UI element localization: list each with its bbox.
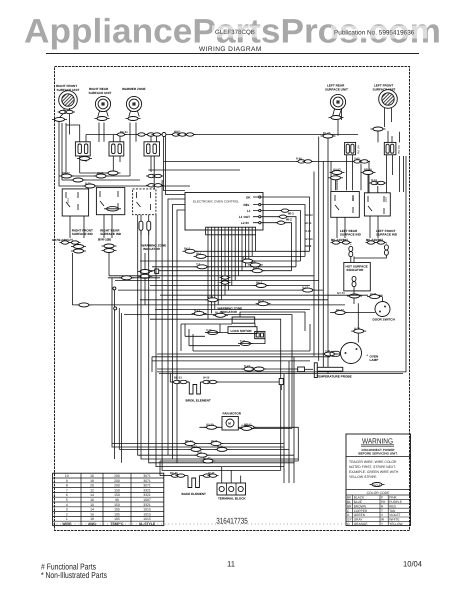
svg-text:316417735: 316417735 — [216, 517, 248, 526]
svg-text:B/W-2(B): B/W-2(B) — [98, 238, 111, 242]
svg-text:BK-12: BK-12 — [305, 214, 313, 217]
svg-text:BK-67: BK-67 — [62, 172, 70, 175]
svg-text:W-14: W-14 — [305, 222, 312, 225]
svg-text:11: 11 — [227, 560, 235, 569]
svg-text:BL-65: BL-65 — [323, 132, 331, 135]
svg-text:14: 14 — [90, 493, 94, 497]
svg-text:T: T — [381, 509, 383, 513]
svg-text:R-55: R-55 — [296, 158, 302, 161]
svg-text:BL-15: BL-15 — [215, 312, 223, 315]
svg-text:WHITE: WHITE — [389, 518, 399, 522]
svg-text:RED: RED — [389, 504, 396, 508]
svg-text:ELECTRONIC OVEN CONTROL: ELECTRONIC OVEN CONTROL — [193, 200, 239, 204]
svg-text:LOCK MOTOR: LOCK MOTOR — [231, 329, 253, 333]
svg-text:GY: GY — [347, 518, 352, 522]
svg-text:C: C — [347, 509, 350, 513]
svg-text:10/04: 10/04 — [403, 560, 423, 569]
svg-text:PR: PR — [381, 500, 386, 504]
svg-text:GY-73: GY-73 — [337, 292, 345, 295]
svg-text:8: 8 — [66, 484, 68, 488]
svg-text:BAKE ELEMENT: BAKE ELEMENT — [182, 492, 207, 496]
svg-text:3321: 3321 — [143, 503, 151, 507]
svg-text:HI-1: HI-1 — [288, 212, 294, 216]
svg-text:G: G — [347, 513, 350, 517]
svg-text:BROIL ELEMENT: BROIL ELEMENT — [186, 399, 211, 403]
svg-text:GREEN: GREEN — [354, 513, 366, 517]
svg-text:P: P — [381, 496, 383, 500]
svg-text:3321: 3321 — [143, 488, 151, 492]
svg-text:R-6: R-6 — [242, 257, 247, 260]
svg-text:6: 6 — [66, 493, 68, 497]
svg-text:2: 2 — [66, 512, 68, 516]
svg-text:105: 105 — [114, 508, 120, 512]
svg-text:COLOR CODE: COLOR CODE — [367, 491, 391, 495]
svg-text:BK-51: BK-51 — [120, 131, 128, 134]
svg-text:GY-16: GY-16 — [305, 238, 313, 241]
svg-text:PURPLE: PURPLE — [389, 500, 402, 504]
svg-text:INF SW: INF SW — [357, 145, 360, 155]
svg-text:PINK: PINK — [389, 496, 397, 500]
svg-text:L1 OUT: L1 OUT — [239, 215, 250, 219]
svg-text:BK-2: BK-2 — [184, 248, 191, 251]
svg-text:3321: 3321 — [143, 493, 151, 497]
svg-text:W: W — [381, 518, 384, 522]
svg-text:16: 16 — [90, 474, 94, 478]
svg-text:90: 90 — [115, 498, 119, 502]
svg-text:1015: 1015 — [143, 512, 151, 516]
svg-text:W-4: W-4 — [196, 253, 201, 256]
svg-text:105: 105 — [114, 517, 120, 521]
svg-text:R-13: R-13 — [194, 310, 200, 313]
svg-text:20: 20 — [90, 484, 94, 488]
svg-text:G/Y-E: G/Y-E — [373, 483, 380, 487]
svg-text:R-10: R-10 — [305, 230, 311, 233]
svg-text:7: 7 — [66, 488, 68, 492]
svg-text:BEFORE SERVICING UNIT.: BEFORE SERVICING UNIT. — [358, 451, 397, 455]
svg-text:R-71: R-71 — [85, 182, 91, 185]
svg-text:R: R — [381, 504, 384, 508]
svg-text:14: 14 — [90, 508, 94, 512]
svg-text:18: 18 — [90, 479, 94, 483]
svg-text:16: 16 — [90, 512, 94, 516]
svg-text:INDICATOR: INDICATOR — [347, 268, 365, 272]
svg-text:1007: 1007 — [143, 498, 151, 502]
svg-text:GK: GK — [246, 195, 251, 199]
svg-text:LAMP: LAMP — [370, 358, 379, 362]
svg-text:POT: POT — [66, 198, 69, 204]
svg-text:BR-8: BR-8 — [305, 245, 312, 248]
svg-text:105: 105 — [114, 512, 120, 516]
svg-text:YELLOW: YELLOW — [389, 522, 402, 526]
svg-text:L2 IN: L2 IN — [241, 221, 249, 225]
svg-text:INDICATOR: INDICATOR — [220, 310, 238, 314]
svg-text:O-17: O-17 — [302, 286, 308, 289]
svg-text:V: V — [381, 513, 384, 517]
svg-text:SURFACE IND: SURFACE IND — [72, 232, 94, 236]
svg-text:W-69: W-69 — [97, 172, 104, 175]
svg-text:W-53: W-53 — [174, 131, 181, 134]
svg-text:SURFACE IND: SURFACE IND — [376, 233, 398, 237]
svg-text:3071: 3071 — [143, 484, 151, 488]
svg-text:200: 200 — [114, 474, 120, 478]
svg-text:SURFACE UNIT: SURFACE UNIT — [325, 87, 348, 91]
svg-text:INDICATOR: INDICATOR — [143, 247, 161, 251]
svg-text:BR: BR — [347, 504, 352, 508]
svg-text:WIRING DIAGRAM: WIRING DIAGRAM — [199, 46, 262, 53]
svg-text:POT: POT — [384, 197, 387, 203]
svg-text:WARMER ZONE: WARMER ZONE — [122, 87, 146, 91]
svg-text:W-25: W-25 — [203, 377, 210, 380]
svg-text:HI-2: HI-2 — [286, 218, 292, 222]
svg-text:TERMINAL BLOCK: TERMINAL BLOCK — [218, 497, 247, 501]
svg-text:NOTED FIRST, STRIPE NEXT.: NOTED FIRST, STRIPE NEXT. — [349, 465, 396, 469]
svg-text:BLUE: BLUE — [354, 500, 362, 504]
svg-text:DOOR SWITCH: DOOR SWITCH — [373, 318, 396, 322]
svg-text:INF SW: INF SW — [397, 145, 400, 155]
svg-text:COPPER: COPPER — [354, 509, 368, 513]
svg-text:YELLOW STRIPE.: YELLOW STRIPE. — [349, 475, 377, 479]
svg-text:150: 150 — [114, 488, 120, 492]
svg-text:POT: POT — [351, 196, 354, 202]
svg-text:EXAMPLE: GREEN WIRE WITH: EXAMPLE: GREEN WIRE WITH — [349, 470, 399, 474]
svg-text:SURFACE IND: SURFACE IND — [340, 233, 362, 237]
svg-text:SURFACE IND: SURFACE IND — [100, 232, 122, 236]
svg-text:1: 1 — [66, 517, 68, 521]
svg-text:150: 150 — [114, 503, 120, 507]
svg-text:REL: REL — [244, 203, 250, 207]
svg-text:1015: 1015 — [143, 517, 151, 521]
svg-text:GY-9: GY-9 — [207, 296, 214, 299]
svg-text:M: M — [228, 422, 231, 426]
svg-text:VIOLET: VIOLET — [389, 513, 400, 517]
svg-text:3071: 3071 — [143, 479, 151, 483]
svg-text:3071: 3071 — [143, 474, 151, 478]
svg-text:5: 5 — [66, 498, 68, 502]
svg-text:W-11: W-11 — [258, 300, 265, 303]
svg-text:BLACK: BLACK — [354, 496, 365, 500]
svg-text:BROWN: BROWN — [354, 504, 367, 508]
svg-text:GRAY: GRAY — [354, 518, 364, 522]
svg-text:*: * — [367, 354, 369, 358]
svg-text:200: 200 — [114, 484, 120, 488]
svg-text:10: 10 — [90, 503, 94, 507]
svg-text:TRACER WIRE: WIRE COLOR: TRACER WIRE: WIRE COLOR — [349, 460, 397, 464]
svg-text:BL: BL — [347, 500, 351, 504]
svg-text:200: 200 — [114, 479, 120, 483]
svg-text:150: 150 — [114, 493, 120, 497]
svg-text:TAN: TAN — [389, 509, 396, 513]
svg-text:BK: BK — [347, 496, 352, 500]
svg-text:ORANGE: ORANGE — [354, 522, 368, 526]
svg-text:FAN MOTOR: FAN MOTOR — [223, 412, 242, 416]
svg-text:O-8: O-8 — [251, 261, 256, 264]
svg-text:SURFACE UNIT: SURFACE UNIT — [89, 91, 112, 95]
svg-text:BK-23: BK-23 — [174, 377, 182, 380]
svg-text:4: 4 — [66, 503, 68, 507]
svg-text:3: 3 — [66, 508, 68, 512]
svg-text:BR-5: BR-5 — [253, 267, 260, 270]
svg-text:16: 16 — [90, 498, 94, 502]
svg-text:L1: L1 — [247, 209, 251, 213]
svg-text:WARNING: WARNING — [362, 437, 393, 446]
svg-text:18: 18 — [90, 517, 94, 521]
svg-text:9: 9 — [66, 479, 68, 483]
svg-text:10: 10 — [65, 474, 69, 478]
svg-text:1015: 1015 — [143, 508, 151, 512]
svg-text:Y-3: Y-3 — [196, 263, 201, 266]
svg-text:TEMPERATURE PROBE: TEMPERATURE PROBE — [317, 374, 352, 378]
svg-text:* Non-Illustrated Parts: * Non-Illustrated Parts — [41, 570, 107, 580]
svg-text:12: 12 — [90, 488, 94, 492]
svg-text:BK-7: BK-7 — [256, 282, 263, 285]
